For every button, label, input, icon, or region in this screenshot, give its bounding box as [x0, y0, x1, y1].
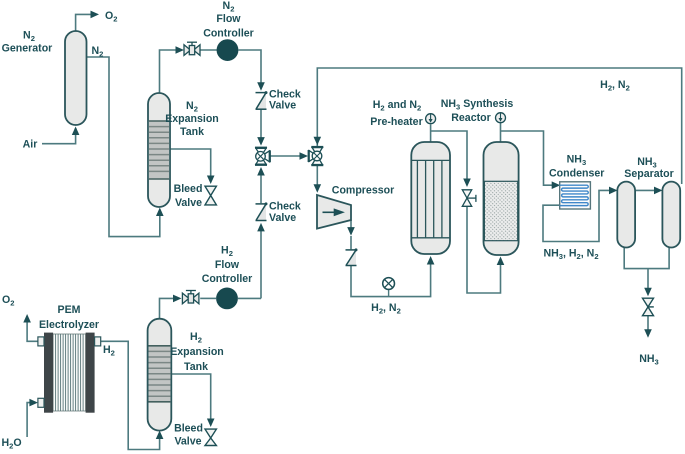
wire N2 controller valve to circle — [200, 49, 217, 51]
H2 bleed valve — [205, 429, 216, 445]
wire H2 bleed line — [171, 374, 210, 420]
svg-text:H2 and N2: H2 and N2 — [373, 99, 422, 113]
arrow above H2 bleed valve — [207, 419, 215, 428]
vessel NH3 separator drum 1 — [617, 182, 635, 248]
instrument circle reactor — [496, 113, 506, 123]
svg-text:Generator: Generator — [2, 43, 53, 55]
wire separator bottoms — [624, 247, 669, 269]
svg-text:Tank: Tank — [184, 361, 208, 373]
wire H2O inlet — [27, 403, 30, 437]
wire H2 controller circle to riser — [238, 297, 261, 299]
svg-text:Air: Air — [23, 139, 38, 151]
check valve 2 — [256, 202, 268, 220]
PEM electrolyzer stack — [38, 333, 101, 413]
arrow into 3way1 bottom — [257, 167, 265, 176]
wire reactor top stem — [500, 123, 502, 142]
arrow into 3way2 top — [314, 137, 322, 146]
wire check valve 3 to preheater bottom — [351, 259, 431, 297]
wire O2 electrolyzer outlet — [27, 316, 38, 341]
check valve 1 — [256, 91, 268, 109]
svg-text:Compressor: Compressor — [332, 185, 394, 197]
arrow O2 out — [91, 11, 100, 19]
wire N2 bleed line — [170, 149, 211, 177]
wire condenser outlet loop — [543, 190, 610, 241]
arrow into 3way1 top — [257, 137, 265, 146]
arrow into preheater bottom — [427, 256, 435, 265]
3way valve 1 — [255, 148, 270, 165]
svg-text:H2, N2: H2, N2 — [600, 79, 630, 93]
wire N2 circle to check valve column — [239, 50, 262, 84]
wire air inlet — [42, 128, 76, 144]
arrow above NH3 valve — [644, 288, 652, 297]
wire H2 tank top to controller — [160, 298, 174, 318]
wire O2 generator outlet — [76, 14, 91, 31]
H2 flow control valve — [182, 291, 199, 304]
arrow above PH-reactor valve — [463, 179, 471, 188]
arrow below check valve 2 — [257, 223, 265, 232]
svg-text:Valve: Valve — [269, 212, 296, 224]
wire preheater branch to valve — [431, 131, 467, 180]
vessel NH3 separator drum 2 — [662, 182, 680, 248]
arrow into H2 fc valve — [173, 295, 182, 303]
vessel H2 expansion tank — [148, 319, 172, 431]
check valve 3 (compressor discharge) — [346, 248, 358, 265]
arrow separator 1 to 2 — [654, 187, 663, 195]
wire H2 controller valve to circle — [200, 297, 216, 299]
wire NH3 outlet — [647, 269, 649, 289]
svg-text:NH3, H2, N2: NH3, H2, N2 — [543, 248, 598, 262]
svg-text:Flow: Flow — [215, 259, 240, 271]
wire valve to reactor bottom — [467, 207, 501, 294]
N2 bleed valve — [205, 186, 216, 205]
arrow above check valve 1 — [257, 82, 265, 91]
electrolyzer right plate — [86, 333, 95, 413]
arrow O2 electrolyzer — [23, 314, 31, 323]
svg-text:PEM: PEM — [58, 304, 81, 316]
N2 flow controller circle — [217, 39, 239, 61]
svg-text:Valve: Valve — [174, 436, 201, 448]
wire recycle rail — [317, 68, 681, 184]
svg-text:Expansion: Expansion — [165, 113, 219, 125]
arrow into 3way2 left — [300, 152, 309, 160]
wire check valve 1 to 3way valve 1 — [260, 109, 262, 139]
arrow H2O into tab — [29, 399, 38, 407]
svg-text:Separator: Separator — [624, 168, 673, 180]
wire preheater top stem — [430, 125, 432, 143]
svg-text:Controller: Controller — [203, 28, 254, 40]
H2 flow controller circle — [216, 288, 238, 310]
svg-text:Bleed: Bleed — [174, 183, 203, 195]
arrow into reactor bottom — [497, 257, 505, 266]
electrolyzer left plate — [44, 333, 53, 413]
3way valve 2 — [309, 147, 324, 165]
NH3 condenser box — [560, 182, 591, 209]
wire 3way2 to compressor inlet — [316, 165, 318, 185]
wire NH3 valve to arrow — [647, 316, 649, 330]
arrow N2 into tank bottom — [156, 208, 164, 217]
svg-text:Controller: Controller — [202, 273, 253, 285]
svg-text:Condenser: Condenser — [549, 167, 604, 179]
arrow NH3 final — [644, 329, 652, 338]
vessel H2-N2 preheater — [411, 142, 450, 254]
wire compressor outlet to check valve 3 — [350, 220, 352, 228]
N2 flow control valve — [184, 42, 200, 55]
instrument circle preheater — [426, 114, 436, 124]
wire N2 tank to flow controller — [160, 50, 177, 93]
svg-text:Bleed: Bleed — [174, 423, 203, 435]
arrow into condenser — [552, 181, 561, 189]
svg-text:Valve: Valve — [269, 100, 296, 112]
arrow into separator 1 — [609, 187, 618, 195]
wire H2 riser to check valve 2 — [260, 231, 262, 299]
condenser coil — [560, 185, 589, 205]
svg-text:Pre-heater: Pre-heater — [370, 116, 422, 128]
arrow into compressor — [314, 184, 322, 193]
vessel N2 expansion tank — [148, 93, 170, 207]
electrolyzer tab top-right — [95, 337, 101, 346]
arrow compressor outlet — [347, 227, 355, 236]
valve preheater-reactor — [462, 190, 476, 207]
wire reactor outlet to condenser — [501, 131, 553, 185]
svg-text:NH3 Synthesis: NH3 Synthesis — [441, 98, 514, 112]
vessel NH3 synthesis reactor — [484, 142, 519, 255]
compressor — [317, 195, 351, 229]
NH3 product valve — [643, 298, 654, 316]
svg-text:Reactor: Reactor — [451, 112, 490, 124]
svg-text:Expansion: Expansion — [170, 346, 224, 358]
svg-text:Flow: Flow — [216, 13, 241, 25]
arrow into H2 tank bottom — [156, 431, 164, 440]
svg-text:Tank: Tank — [180, 126, 204, 138]
flow sensor symbol — [383, 278, 395, 297]
svg-text:Valve: Valve — [175, 197, 202, 209]
svg-text:H2, N2: H2, N2 — [371, 302, 401, 316]
svg-text:Electrolyzer: Electrolyzer — [39, 319, 99, 331]
wire N2 generator to expansion tank — [87, 57, 160, 237]
svg-text:Check: Check — [269, 201, 301, 213]
arrow air into generator — [72, 127, 80, 136]
arrow into N2 fc valve — [176, 46, 185, 54]
electrolyzer tab bottom-left — [38, 398, 44, 407]
vessel N2 generator — [65, 31, 87, 125]
arrow above N2 bleed valve — [207, 176, 215, 185]
electrolyzer tab top-left — [38, 337, 44, 346]
wire separator interconnect — [635, 189, 654, 191]
wire electrolyzer H2 to tank — [100, 341, 159, 449]
wire 3way1 right port to 3way2 — [271, 155, 301, 157]
wire check valve 2 to 3way valve 1 bottom — [260, 174, 262, 203]
